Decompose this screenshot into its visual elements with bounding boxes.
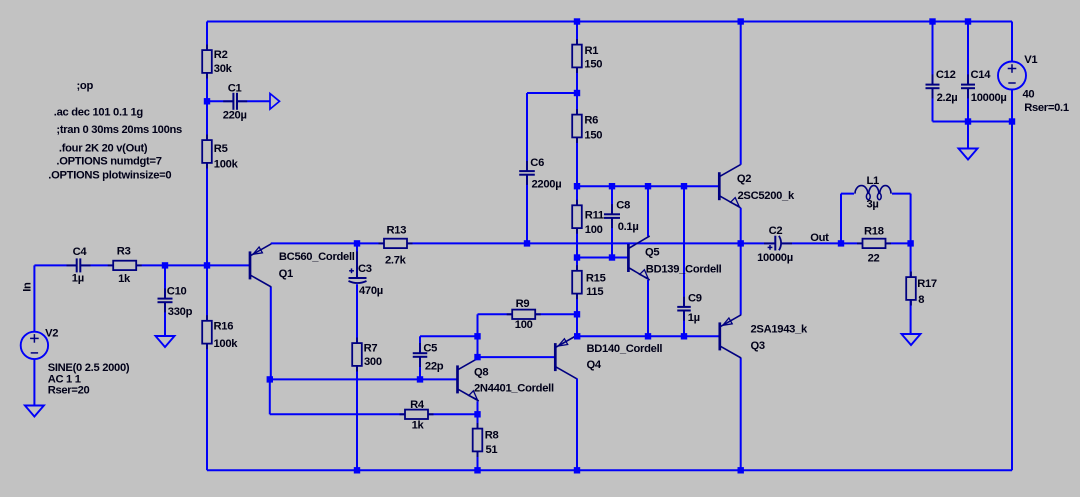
svg-text:C8: C8 — [616, 200, 630, 212]
svg-text:C9: C9 — [688, 293, 702, 305]
svg-text:BC560_Cordell: BC560_Cordell — [279, 251, 355, 263]
svg-text:SINE(0 2.5 2000): SINE(0 2.5 2000) — [48, 362, 130, 374]
svg-text:R16: R16 — [214, 320, 234, 332]
svg-text:C14: C14 — [971, 69, 992, 81]
svg-text:220µ: 220µ — [223, 110, 247, 122]
svg-text:22: 22 — [868, 253, 880, 265]
svg-text:.four 2K 20 v(Out): .four 2K 20 v(Out) — [59, 142, 148, 154]
svg-text:L1: L1 — [867, 175, 880, 187]
svg-text:V1: V1 — [1024, 54, 1037, 66]
svg-text:R1: R1 — [585, 45, 599, 57]
svg-text:150: 150 — [584, 129, 602, 141]
svg-text:C10: C10 — [167, 286, 187, 298]
svg-text:R17: R17 — [917, 278, 937, 290]
svg-text:BD140_Cordell: BD140_Cordell — [587, 343, 663, 355]
svg-text:.ac dec 101 0.1 1g: .ac dec 101 0.1 1g — [54, 107, 144, 119]
svg-text:Q8: Q8 — [474, 366, 488, 378]
svg-text:V2: V2 — [45, 328, 58, 340]
svg-text:2.7k: 2.7k — [385, 254, 407, 266]
svg-text:R7: R7 — [364, 343, 378, 355]
svg-text:8: 8 — [918, 294, 924, 306]
svg-text:10000µ: 10000µ — [971, 92, 1007, 104]
svg-text:2200µ: 2200µ — [532, 179, 562, 191]
svg-text:C12: C12 — [936, 69, 956, 81]
svg-text:R15: R15 — [586, 273, 606, 285]
svg-text:In: In — [22, 282, 34, 292]
svg-text:.OPTIONS numdgt=7: .OPTIONS numdgt=7 — [56, 156, 161, 168]
svg-text:1µ: 1µ — [688, 312, 700, 324]
svg-text:470µ: 470µ — [359, 285, 383, 297]
svg-text:Q3: Q3 — [751, 340, 765, 352]
svg-text:1k: 1k — [118, 273, 131, 285]
svg-text:C3: C3 — [358, 263, 372, 275]
svg-text:300: 300 — [364, 356, 382, 368]
svg-text:51: 51 — [486, 444, 498, 456]
svg-text:115: 115 — [586, 286, 603, 298]
svg-text:2SA1943_k: 2SA1943_k — [751, 324, 808, 336]
svg-text:R2: R2 — [214, 49, 228, 61]
svg-text:C2: C2 — [769, 225, 783, 237]
svg-text:C6: C6 — [530, 157, 544, 169]
svg-text:C5: C5 — [423, 343, 437, 355]
svg-text:100: 100 — [585, 224, 603, 236]
svg-text:10000µ: 10000µ — [757, 252, 793, 264]
svg-text:1k: 1k — [412, 420, 425, 432]
svg-text:Out: Out — [810, 232, 829, 244]
svg-text:Q4: Q4 — [587, 359, 602, 371]
svg-text:C4: C4 — [73, 246, 88, 258]
svg-text:1µ: 1µ — [72, 273, 84, 285]
svg-text:100k: 100k — [214, 158, 239, 170]
svg-text:R5: R5 — [214, 143, 228, 155]
svg-text:;op: ;op — [77, 80, 94, 92]
svg-text:BD139_Cordell: BD139_Cordell — [646, 263, 722, 275]
svg-text:R3: R3 — [117, 245, 131, 257]
svg-text:R8: R8 — [485, 429, 499, 441]
svg-text:R9: R9 — [516, 298, 530, 310]
svg-text:C1: C1 — [228, 83, 242, 95]
svg-text:30k: 30k — [214, 63, 233, 75]
svg-text:.OPTIONS plotwinsize=0: .OPTIONS plotwinsize=0 — [48, 170, 171, 182]
svg-text:2SC5200_k: 2SC5200_k — [738, 190, 795, 202]
svg-text:R11: R11 — [585, 209, 604, 221]
svg-text:100k: 100k — [214, 338, 239, 350]
svg-text:3µ: 3µ — [867, 198, 879, 210]
svg-text:R6: R6 — [584, 114, 598, 126]
svg-text:40: 40 — [1023, 88, 1035, 100]
svg-text:2N4401_Cordell: 2N4401_Cordell — [474, 383, 554, 395]
svg-text:0.1µ: 0.1µ — [618, 221, 639, 233]
svg-text:;tran 0 30ms 20ms 100ns: ;tran 0 30ms 20ms 100ns — [56, 124, 182, 136]
svg-text:R18: R18 — [864, 225, 884, 237]
svg-text:330p: 330p — [168, 306, 193, 318]
svg-text:Rser=20: Rser=20 — [48, 385, 90, 397]
svg-text:150: 150 — [584, 59, 602, 71]
svg-text:Rser=0.1: Rser=0.1 — [1024, 102, 1069, 114]
svg-text:Q1: Q1 — [279, 268, 293, 280]
svg-text:22p: 22p — [425, 360, 444, 372]
svg-text:2.2µ: 2.2µ — [937, 92, 958, 104]
svg-text:Q5: Q5 — [645, 247, 659, 259]
svg-text:R13: R13 — [387, 225, 407, 237]
svg-text:100: 100 — [515, 319, 533, 331]
svg-text:Q2: Q2 — [737, 173, 751, 185]
svg-text:R4: R4 — [410, 399, 425, 411]
